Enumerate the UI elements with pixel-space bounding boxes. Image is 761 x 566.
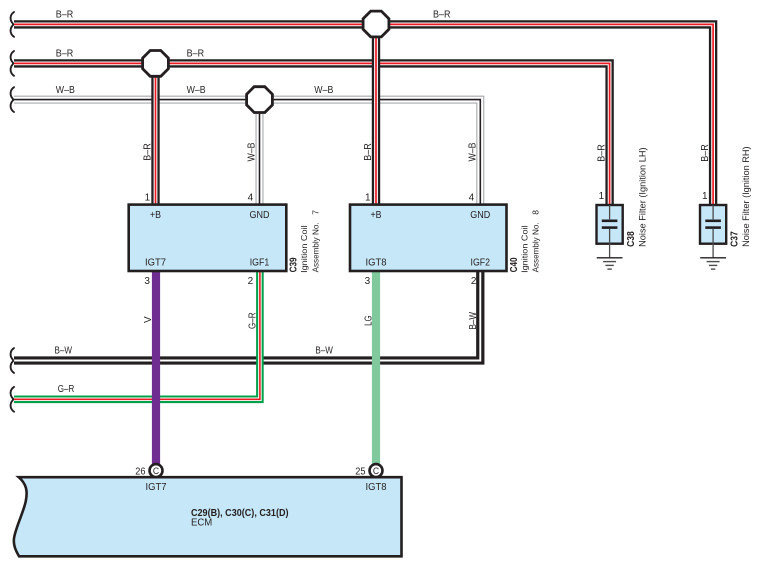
svg-text:B–R: B–R [187, 49, 205, 60]
wire-continues squiggle W1 [11, 12, 14, 37]
svg-text:LG: LG [363, 315, 374, 326]
wire LG light green from C40 IGT8 pin 3 to ECM pin 25 [372, 270, 380, 464]
svg-text:IGT7: IGT7 [145, 257, 166, 268]
wire G-R from C39 IGF1 pin 2 down, left to edge [14, 270, 260, 399]
wire B-R vertical from node octagon C to C40 +B pin 1 [372, 24, 380, 206]
svg-text:C39: C39 [289, 257, 300, 272]
svg-text:7: 7 [310, 210, 320, 215]
ignition coil box C39 [129, 205, 287, 271]
svg-text:3: 3 [144, 276, 150, 287]
wire-continues squiggle W3 [11, 87, 14, 112]
svg-text:8: 8 [531, 210, 541, 215]
svg-text:4: 4 [248, 192, 254, 203]
svg-text:Assembly No.: Assembly No. [310, 222, 320, 272]
wire-continues squiggle W2 [11, 51, 14, 76]
svg-text:Noise Filter (Ignition LH): Noise Filter (Ignition LH) [638, 147, 648, 247]
svg-text:C40: C40 [509, 257, 520, 272]
svg-text:+B: +B [150, 210, 161, 221]
ground symbol C38 [597, 258, 623, 269]
svg-text:B–R: B–R [56, 49, 74, 60]
svg-text:C38: C38 [626, 231, 637, 247]
wire W2 B-R horizontal, corner down to C38 [14, 63, 610, 206]
capacitor inside C37 [705, 205, 721, 258]
svg-text:C: C [153, 466, 159, 477]
svg-text:W–B: W–B [468, 142, 479, 161]
svg-text:IGT8: IGT8 [366, 257, 387, 268]
svg-text:Ignition Coil: Ignition Coil [299, 225, 309, 273]
svg-text:Noise Filter (Ignition RH): Noise Filter (Ignition RH) [741, 146, 751, 247]
svg-text:B–W: B–W [468, 311, 479, 329]
svg-text:W–B: W–B [56, 85, 75, 96]
wire-continues squiggle B-W [11, 348, 14, 373]
svg-text:G–R: G–R [247, 312, 258, 329]
noise filter C37 box [700, 205, 726, 244]
svg-text:GND: GND [470, 210, 490, 221]
svg-text:V: V [143, 316, 154, 323]
svg-text:C37: C37 [729, 231, 740, 247]
svg-text:1: 1 [145, 192, 151, 203]
svg-text:W–B: W–B [247, 142, 258, 161]
svg-text:1: 1 [599, 191, 605, 202]
svg-text:B–R: B–R [700, 144, 711, 162]
svg-text:IGT8: IGT8 [366, 482, 387, 493]
wire B-W from C40 IGF2 pin 2 down, left to edge [14, 270, 480, 361]
svg-text:1: 1 [365, 192, 371, 203]
svg-text:4: 4 [469, 192, 475, 203]
svg-text:2: 2 [248, 276, 254, 287]
svg-text:W–B: W–B [187, 85, 206, 96]
svg-text:B–R: B–R [433, 10, 451, 21]
ECM box [14, 477, 402, 556]
capacitor inside C38 [602, 205, 618, 258]
svg-text:IGT7: IGT7 [146, 482, 167, 493]
svg-text:B–W: B–W [315, 346, 333, 357]
svg-text:3: 3 [365, 276, 371, 287]
svg-text:Ignition Coil: Ignition Coil [519, 225, 529, 273]
svg-text:IGF2: IGF2 [471, 257, 491, 268]
svg-text:ECM: ECM [191, 517, 212, 528]
wire V violet from C39 IGT7 pin 3 to ECM pin 26 [152, 270, 160, 464]
svg-text:B–R: B–R [363, 143, 374, 161]
svg-text:25: 25 [355, 466, 366, 477]
node octagon B junction on W3 at x=259.5 [247, 87, 273, 113]
svg-text:26: 26 [135, 466, 146, 477]
ignition coil box C40 [350, 205, 507, 271]
svg-text:GND: GND [250, 210, 270, 221]
svg-text:C: C [373, 466, 379, 477]
svg-text:W–B: W–B [314, 85, 333, 96]
svg-text:B–R: B–R [596, 144, 607, 162]
svg-text:B–W: B–W [55, 346, 73, 357]
wire B-R vertical from node octagon A to C39 +B pin 1 [151, 63, 159, 206]
svg-text:1: 1 [702, 191, 708, 202]
svg-text:IGF1: IGF1 [250, 257, 270, 268]
svg-text:Assembly No.: Assembly No. [531, 222, 541, 272]
node octagon C junction on W1 at x=376 [363, 11, 389, 37]
noise filter C38 box [597, 205, 623, 244]
wire-continues squiggle G-R [11, 387, 14, 412]
svg-text:B–R: B–R [56, 10, 74, 21]
ground symbol C37 [700, 258, 726, 269]
node octagon A junction on W2 at x=155.5 [143, 51, 169, 77]
svg-text:B–R: B–R [143, 143, 154, 161]
wire W3 W-B horizontal, corner down to C40 GND pin 4 [14, 100, 480, 206]
ECM connector circle pin 25 [370, 464, 383, 477]
svg-text:G–R: G–R [58, 384, 75, 395]
ECM connector circle pin 26 [150, 464, 163, 477]
wire W1 B-R horizontal top, corner down to C37 [14, 24, 713, 206]
svg-text:2: 2 [471, 276, 477, 287]
svg-text:+B: +B [371, 210, 382, 221]
wire W-B vertical from node octagon B to C39 GND pin 4 [256, 100, 264, 206]
